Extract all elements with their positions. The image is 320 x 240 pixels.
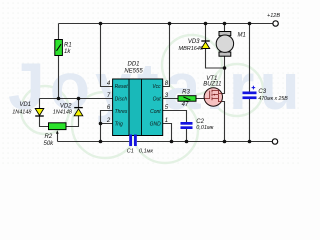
motor M1 — [216, 32, 246, 57]
wire: pin 7 horizontal net — [40, 98, 113, 100]
svg-text:47: 47 — [182, 102, 189, 108]
svg-text:1N4148: 1N4148 — [53, 109, 73, 115]
svg-text:1: 1 — [165, 118, 168, 124]
svg-text:2: 2 — [106, 118, 111, 124]
svg-text:Out: Out — [153, 97, 162, 103]
svg-text:M1: M1 — [238, 33, 246, 39]
svg-text:1N4148: 1N4148 — [12, 110, 32, 116]
wire: bottom rail (signal + ground) — [58, 141, 273, 143]
wire: VD3 branch — [206, 24, 225, 69]
wire: pin 1 to ground rail — [163, 124, 172, 142]
wire: pin 8 to +12V — [163, 24, 170, 87]
svg-text:DD1: DD1 — [127, 62, 139, 68]
svg-text:R1: R1 — [64, 43, 72, 49]
potentiometer R2 50k — [44, 123, 67, 147]
watermark green logo circles — [21, 35, 263, 163]
wire: pins 6-2 tie and drop to C1 net — [101, 111, 113, 142]
wire: R1 branch from rail to pin7 net — [58, 24, 60, 99]
wire: pin 4 to +12V — [101, 24, 113, 87]
svg-text:Disch: Disch — [115, 97, 128, 103]
svg-text:Trig: Trig — [115, 122, 123, 128]
capacitor C2 0.01u — [181, 119, 214, 131]
svg-text:Vcc: Vcc — [152, 84, 161, 90]
svg-text:R2: R2 — [45, 134, 53, 140]
resistor R1 — [55, 40, 72, 56]
wire: motor branch / drain — [222, 24, 225, 94]
node: VD3 to drain junction — [223, 66, 227, 70]
terminal ground (bottom right) — [272, 139, 277, 144]
transistor VT1 BUZ11 (N-MOSFET) — [203, 76, 222, 106]
svg-text:+12В: +12В — [267, 13, 280, 19]
wire: C3 branch — [249, 24, 251, 142]
node: pin2 tie junction — [99, 122, 103, 126]
wire: pin 5 to C2 — [163, 111, 187, 142]
svg-text:Reset: Reset — [115, 84, 129, 90]
node: junctions on bottom rail — [99, 140, 103, 144]
svg-text:0,01мк: 0,01мк — [196, 125, 213, 131]
wire: pin 3 to R3 to gate — [163, 98, 205, 100]
capacitor C1 0.1u — [127, 135, 154, 155]
wire: source to ground — [222, 102, 225, 142]
pin numbers — [106, 81, 169, 124]
wire: VD1 branch — [40, 99, 49, 127]
node: junctions on pin7 net — [57, 97, 61, 101]
diode VD1 1N4148 — [12, 102, 44, 116]
svg-text:VD3: VD3 — [188, 39, 200, 45]
svg-text:Thres: Thres — [115, 109, 128, 115]
IC DD1 NE555 — [106, 62, 169, 136]
svg-text:VD1: VD1 — [19, 102, 31, 108]
terminal +12V — [273, 21, 278, 26]
svg-text:470мк x 25В: 470мк x 25В — [258, 96, 288, 102]
resistor R3 47 — [178, 90, 196, 108]
svg-text:MBR1645: MBR1645 — [179, 46, 204, 52]
diode VD3 MBR1645 — [179, 39, 210, 52]
svg-text:BUZ11: BUZ11 — [203, 81, 221, 87]
capacitor C3 470u electrolytic — [243, 86, 289, 102]
svg-text:C1: C1 — [127, 149, 134, 155]
svg-text:Cont: Cont — [150, 109, 161, 115]
wire: +12V top rail — [40, 24, 273, 142]
svg-text:GND: GND — [150, 122, 162, 128]
svg-text:1k: 1k — [64, 49, 71, 55]
svg-text:50k: 50k — [44, 141, 55, 147]
diode VD2 1N4148 — [53, 104, 83, 116]
wire: VD2 branch — [66, 99, 79, 127]
node: junctions on +12V rail — [57, 22, 252, 144]
svg-text:0,1мк: 0,1мк — [139, 149, 153, 155]
wire: pot wiper down — [57, 133, 59, 142]
svg-text:NE555: NE555 — [124, 69, 143, 75]
svg-text:C3: C3 — [258, 89, 266, 95]
svg-text:R3: R3 — [182, 90, 190, 96]
